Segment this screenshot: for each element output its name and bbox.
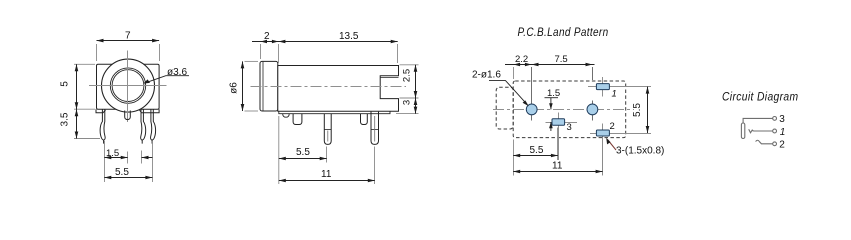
- svg-text:5.5: 5.5: [296, 147, 310, 158]
- svg-text:ø6: ø6: [229, 82, 240, 94]
- dimension 5 (front upper height): [60, 64, 96, 109]
- dimension 7 (front width): [97, 31, 160, 61]
- dimension 3.5 (front pin length): [60, 109, 101, 138]
- right slot column line bottom: [602, 124, 604, 176]
- side view locating peg: [283, 114, 290, 118]
- svg-text:Circuit Diagram: Circuit Diagram: [722, 92, 799, 104]
- right slot column line top: [602, 77, 604, 97]
- side view long pin 4: [371, 112, 379, 145]
- front view right claw pin B: [151, 110, 156, 144]
- svg-text:7: 7: [125, 31, 131, 42]
- svg-text:3: 3: [567, 122, 572, 133]
- front view barrel circle: [102, 59, 155, 112]
- svg-text:5.5: 5.5: [632, 103, 643, 117]
- middle slot column line: [558, 113, 560, 161]
- svg-text:2: 2: [610, 121, 615, 132]
- svg-text:11: 11: [552, 160, 563, 171]
- switch contact wire: [749, 129, 773, 133]
- dimension 7.5: [532, 54, 593, 66]
- svg-text:3: 3: [402, 100, 413, 105]
- svg-text:3: 3: [779, 114, 785, 125]
- side view flange inner line: [262, 62, 264, 111]
- svg-text:P.C.B.Land Pattern: P.C.B.Land Pattern: [518, 27, 609, 39]
- pad 3 slot (middle): [552, 119, 565, 126]
- side view long pin 2: [324, 114, 331, 144]
- svg-text:7.5: 7.5: [555, 54, 568, 65]
- dimension 2.5 (notch): [400, 65, 419, 98]
- dimension 1.5 (front pin pitch): [104, 141, 127, 182]
- land pattern body outline dashed: [513, 81, 626, 138]
- hole 1 (1.6): [526, 104, 537, 115]
- front view right foot: [140, 109, 160, 113]
- tip contact wire: [743, 118, 773, 122]
- middle slot row extension: [565, 122, 578, 124]
- svg-text:2.2: 2.2: [515, 54, 528, 65]
- hole 2 (1.6): [587, 104, 598, 115]
- pad 1 slot (top): [596, 84, 609, 90]
- dimension diameter 6 (flange): [229, 61, 259, 111]
- dimension 5.5 (land bottom): [513, 128, 558, 176]
- hole 2 column line: [592, 67, 594, 80]
- pad 2 slot (bottom): [596, 130, 609, 136]
- dimension 11 (side, overall pin span): [279, 147, 375, 185]
- dimension 2 (flange thickness): [252, 31, 286, 63]
- front view center peg: [125, 111, 131, 120]
- svg-text:1: 1: [780, 127, 786, 138]
- svg-text:2-ø1.6: 2-ø1.6: [472, 70, 501, 81]
- svg-text:13.5: 13.5: [339, 31, 359, 42]
- svg-text:2: 2: [264, 31, 270, 42]
- svg-text:ø3.6: ø3.6: [167, 67, 187, 78]
- svg-text:3.5: 3.5: [60, 112, 71, 126]
- svg-text:5.5: 5.5: [115, 167, 129, 178]
- svg-text:11: 11: [321, 169, 332, 180]
- svg-text:2.5: 2.5: [402, 69, 413, 82]
- front view left claw pin: [100, 110, 105, 144]
- front view inner hole 3.6: [112, 70, 144, 102]
- svg-text:1.5: 1.5: [106, 148, 119, 159]
- terminal 2 circle: [773, 142, 777, 146]
- bottom pad row extension: [590, 133, 651, 135]
- side view body with right notch: [278, 66, 399, 112]
- svg-text:1: 1: [612, 89, 617, 100]
- front view body: [97, 64, 160, 109]
- hole 2 crosshair: [592, 101, 594, 121]
- label 2-diameter1.6 with leader: [472, 70, 529, 107]
- top pad row extension: [588, 86, 651, 88]
- jack sleeve bar: [741, 123, 744, 139]
- front view right claw pin A: [141, 110, 146, 144]
- land pattern flange outline dashed: [496, 87, 513, 129]
- svg-text:2: 2: [779, 140, 785, 151]
- side view flange: [260, 61, 278, 111]
- middle slot row extension left: [546, 122, 553, 124]
- side view notch lip line: [380, 77, 398, 79]
- front view vertical centerline: [127, 51, 129, 123]
- dimension 5.5 (front outer pin span): [104, 167, 152, 179]
- svg-text:5: 5: [60, 81, 71, 87]
- svg-text:1.5: 1.5: [547, 88, 560, 99]
- svg-text:5.5: 5.5: [530, 145, 544, 156]
- label 3-(1.5x0.8) with leader: [606, 138, 664, 157]
- side view bottom lip: [279, 111, 390, 114]
- front view inner ring: [110, 68, 145, 103]
- dimension 11 (land bottom): [513, 138, 602, 176]
- dimension 5.5 (land right): [632, 87, 649, 133]
- front view left foot: [96, 109, 106, 113]
- dimension 1.5 (slot offset): [545, 88, 561, 131]
- svg-text:3-(1.5x0.8): 3-(1.5x0.8): [616, 146, 664, 157]
- land pattern centerline: [493, 109, 634, 111]
- dimension 13.5 (body length): [278, 31, 397, 63]
- side view pin stub 3: [361, 114, 368, 125]
- side view centerline: [251, 86, 407, 88]
- terminal 3 circle: [773, 117, 777, 121]
- front view horizontal centerline: [89, 85, 167, 87]
- dimension 5.5 (side, peg to pin2): [279, 116, 327, 184]
- dimension 2.2: [505, 54, 595, 79]
- dimension 3 (lower right): [396, 98, 419, 114]
- hole 1 column line: [531, 67, 533, 121]
- spring contact wire: [756, 140, 773, 144]
- side view pin stub 1: [293, 114, 302, 125]
- label diameter 3.6 with leader: [143, 67, 189, 84]
- terminal 1 circle: [773, 129, 777, 133]
- front right pin pitch marks: [142, 141, 153, 182]
